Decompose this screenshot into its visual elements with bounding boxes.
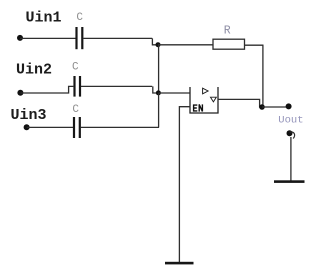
wire step down to junction J1 bbox=[152, 38, 158, 44]
terminal dot Uin2 bbox=[17, 90, 23, 96]
capacitor C2 bbox=[75, 76, 81, 97]
amplifier input triangle bbox=[203, 88, 209, 94]
wire EN pin to ground drop bbox=[179, 107, 190, 262]
wire amplifier output to J3 bbox=[218, 99, 263, 107]
terminal dot Uout bbox=[286, 103, 292, 109]
svg-text:C: C bbox=[72, 104, 79, 116]
wire C1 to step bbox=[83, 37, 152, 39]
junction J2 bbox=[156, 90, 161, 95]
wire Uin1 to C1 bbox=[20, 37, 76, 39]
wire down to right ground bbox=[290, 137, 292, 181]
wire C3 to corner bbox=[81, 126, 159, 128]
svg-text:Uin1: Uin1 bbox=[26, 10, 62, 27]
resistor R bbox=[213, 39, 245, 49]
wire J3 to Uout bbox=[262, 106, 289, 108]
wire Uin3 to C3 bbox=[27, 126, 73, 128]
wire J2 to amplifier input bbox=[158, 92, 190, 94]
wire J2 down to Uin3 row bbox=[158, 93, 160, 127]
terminal dot Uin1 bbox=[17, 35, 23, 41]
wire J1 down to J2 bbox=[158, 45, 160, 93]
wire J1 to resistor R bbox=[158, 44, 213, 46]
amplifier U1 body bbox=[190, 87, 218, 113]
wire resistor to corner bbox=[245, 44, 264, 46]
svg-text:Uout: Uout bbox=[278, 115, 303, 127]
svg-text:R: R bbox=[224, 25, 231, 38]
svg-text:Uin3: Uin3 bbox=[11, 107, 47, 124]
junction J3 bbox=[259, 104, 265, 110]
pin label EN bbox=[193, 104, 202, 111]
amplifier output triangle bbox=[211, 97, 217, 102]
junction J1 bbox=[156, 42, 161, 47]
wire hook from dot to ground wire bbox=[290, 132, 295, 139]
wire C2 to step bbox=[81, 85, 152, 87]
capacitor C3 bbox=[74, 117, 80, 138]
terminal dot Uin3 bbox=[24, 124, 30, 130]
wire Uin2 to step bbox=[20, 86, 73, 93]
wire step down to junction J2 bbox=[153, 86, 159, 93]
svg-text:Uin2: Uin2 bbox=[16, 62, 52, 79]
terminal dot ground branch bbox=[287, 130, 293, 136]
svg-text:C: C bbox=[76, 12, 83, 24]
wire feedback vertical down to J3 bbox=[262, 45, 264, 107]
svg-text:C: C bbox=[72, 62, 79, 74]
ground symbol right bbox=[274, 180, 305, 183]
capacitor C1 bbox=[77, 27, 83, 49]
ground symbol bottom bbox=[165, 262, 194, 265]
